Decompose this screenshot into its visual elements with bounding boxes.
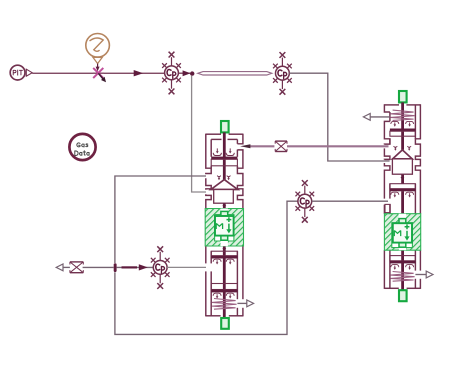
- middle cylinder valves below piston 2: [213, 259, 221, 262]
- right cylinder valves above piston 1: [391, 121, 399, 124]
- right cylinder crosshead box: [392, 159, 412, 174]
- wire Cp2 right then down to right cylinder: [289, 73, 389, 161]
- wire P|T to valve V1: [32, 72, 93, 74]
- boundary node P|T: [10, 65, 32, 80]
- right cylinder valves below piston 3: [391, 265, 399, 268]
- right cylinder valves below piston 2: [391, 192, 399, 195]
- flow arrow: [134, 70, 144, 76]
- middle cylinder mechanical tab bottom: [221, 318, 229, 329]
- wire Cp3 to right cylinder: [312, 200, 388, 202]
- rod arrow below box: [223, 204, 225, 206]
- wire valve V1 to compressor Cp1: [104, 72, 165, 74]
- right cylinder crosshead valves: [394, 146, 398, 148]
- node N1 junction dot: [190, 71, 194, 75]
- middle cylinder piston 3: [211, 284, 237, 290]
- pipe valve V3 to right cylinder: [287, 145, 389, 147]
- compressor Cp2: [273, 52, 292, 95]
- middle cylinder crosshead box: [214, 190, 234, 204]
- middle cylinder piston 1: [211, 157, 237, 160]
- middle cylinder: mechanical tab top: [221, 121, 229, 132]
- right cylinder crank housing hatch: [384, 214, 420, 251]
- middle cylinder crosshead valves: [217, 176, 221, 178]
- gray wire node N2 up to middle cylinder suction chamber: [115, 176, 206, 263]
- gray wire node N1 down to middle cylinder crosshead: [192, 76, 206, 192]
- middle cylinder suction valves head: [216, 148, 218, 151]
- middle cylinder casing: [206, 134, 243, 317]
- middle cylinder valves below piston 3: [213, 293, 221, 296]
- middle cylinder vent arrow right: [237, 300, 253, 307]
- compressor Cp1: [162, 52, 181, 95]
- right cylinder piston 1: [390, 129, 416, 132]
- right cylinder vent arrow left: [363, 114, 390, 121]
- control valve V1: [93, 68, 106, 82]
- gray wire node N2 down and across bottom to Cp3: [115, 201, 298, 334]
- right cylinder vent arrow right: [415, 271, 433, 278]
- valve V3 bowtie: [275, 141, 287, 151]
- wire valve V2 to node N2: [83, 266, 114, 268]
- rod arrow below box: [401, 175, 403, 177]
- right cylinder piston 3: [390, 256, 416, 261]
- wire vent to valve V2: [63, 266, 70, 268]
- right cylinder: mechanical tab top: [399, 91, 407, 102]
- right cylinder mechanical tab bottom: [399, 290, 407, 301]
- middle cylinder crank housing hatch: [205, 209, 243, 247]
- node N2 junction: [114, 263, 117, 272]
- valve V2 bowtie: [70, 262, 83, 273]
- right cylinder casing: [384, 104, 420, 289]
- middle cylinder spring: [212, 299, 237, 310]
- right cylinder spring bottom: [391, 272, 415, 282]
- pipe middle cylinder head to valve V3 with arrow: [240, 144, 274, 148]
- flow arrow: [183, 70, 191, 76]
- gas data reference node: [69, 134, 95, 160]
- compressor Cp4: [151, 246, 170, 289]
- wire node N2 to Cp4 with arrow: [117, 266, 154, 268]
- right cylinder crank mass element: [399, 219, 406, 224]
- right cylinder piston 2: [390, 184, 416, 189]
- signal arrow to valve: [96, 64, 100, 72]
- right cylinder piston rod: [401, 102, 404, 290]
- wire Cp1 to node N1: [178, 72, 190, 74]
- compressor Cp3: [295, 180, 314, 223]
- middle cylinder crosshead triangle: [211, 180, 238, 190]
- wire through valve V1: [93, 72, 104, 74]
- middle cylinder piston 2: [211, 251, 237, 256]
- middle cylinder crank mass element: [221, 211, 228, 216]
- controller signal source: [86, 34, 110, 64]
- vent arrow left: [56, 264, 63, 271]
- wire Cp4 to middle cylinder: [167, 266, 206, 268]
- middle cylinder piston rod: [223, 132, 226, 318]
- rod arrow below green box: [223, 246, 225, 248]
- right cylinder spring top: [391, 110, 415, 120]
- pipe P1 (capsule) node N1 to Cp2: [198, 72, 272, 75]
- right cylinder crosshead triangle: [393, 150, 413, 159]
